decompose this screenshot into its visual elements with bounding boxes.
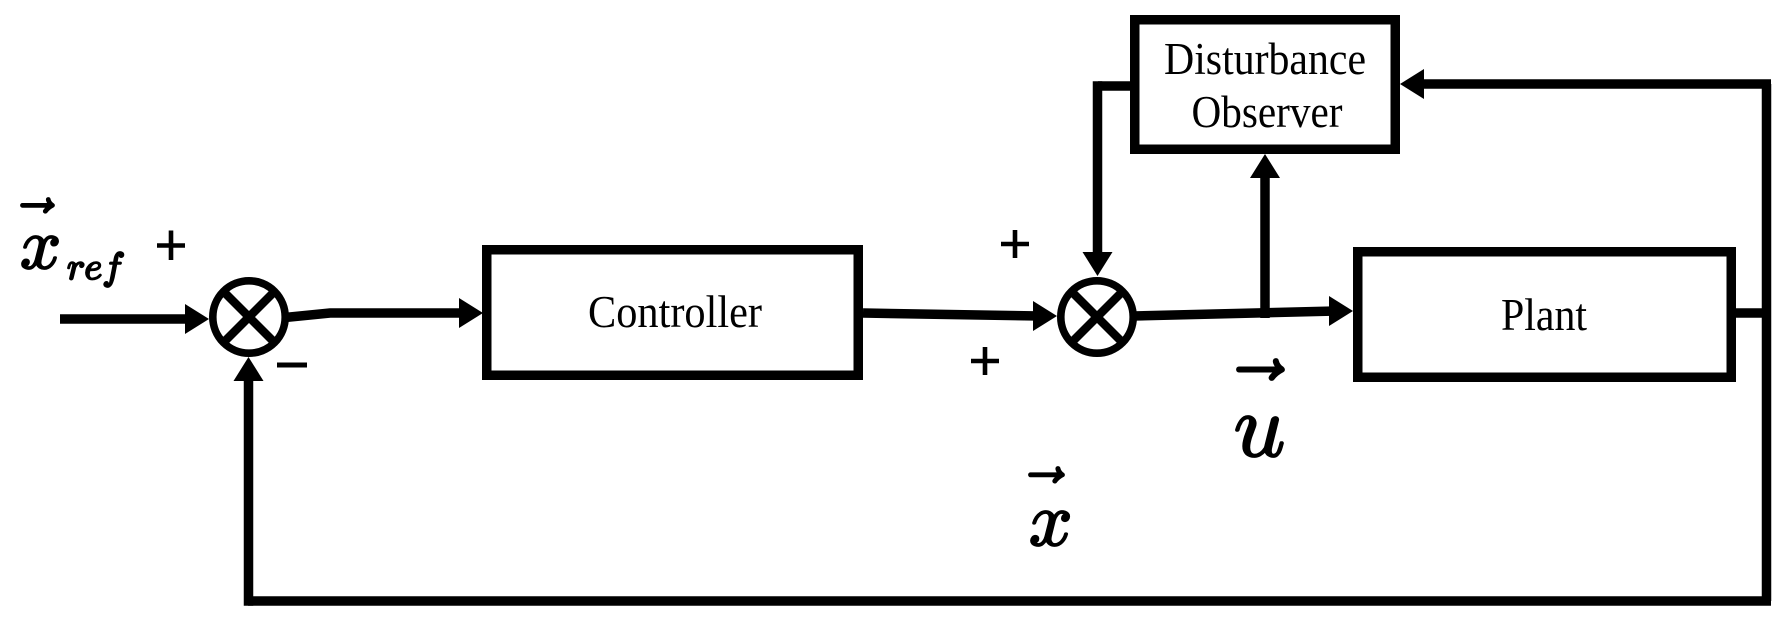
block Disturbance Observer: [1135, 20, 1396, 150]
block Controller: [487, 250, 859, 376]
wire: feedback to Disturbance Observer input: [1400, 69, 1771, 99]
block Plant: [1358, 252, 1732, 378]
minus sign at summer S1 feedback input: [277, 363, 307, 368]
node label x_ref (vector x reference): [21, 198, 123, 287]
wire: tap up from u line into Disturbance Observer: [1250, 154, 1280, 318]
svg-text:Controller: Controller: [588, 287, 762, 337]
svg-text:Plant: Plant: [1501, 290, 1587, 340]
wire: Plant output to feedback node: [1731, 308, 1771, 318]
plus sign at summer S2 left input: [971, 347, 999, 375]
wire: Disturbance Observer output down into summer S2: [1083, 81, 1137, 276]
wire: feedback vertical line on right: [1762, 84, 1772, 601]
node label x (vector state): [1029, 467, 1069, 546]
svg-text:Observer: Observer: [1192, 87, 1343, 137]
plus sign at summer S2 upper input: [1001, 230, 1029, 258]
wire: bottom feedback loop to summer S1: [234, 357, 1772, 606]
wire: summer S2 to Plant: [1133, 296, 1353, 326]
wire: Controller to summer S2: [863, 301, 1057, 331]
summer S1 (circle with X): [213, 281, 285, 353]
node label u (vector control input): [1236, 359, 1284, 457]
plus sign at summer S1 input: [157, 231, 185, 261]
summer S2 (circle with X): [1061, 281, 1133, 353]
wire: reference input into summer S1: [60, 304, 209, 334]
wire: summer S1 to Controller: [285, 298, 483, 328]
svg-text:Disturbance: Disturbance: [1164, 34, 1366, 84]
